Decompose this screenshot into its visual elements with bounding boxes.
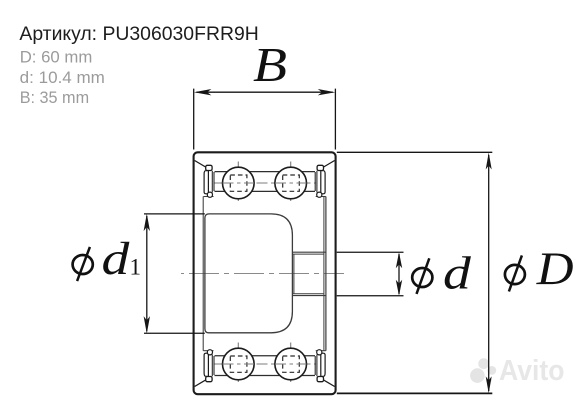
ball top-right — [275, 167, 307, 199]
seal tab — [206, 165, 212, 170]
inner bore d1 rounded profile — [205, 214, 293, 333]
cage dashed box ball top-left — [230, 175, 299, 372]
crosshair h top row — [214, 182, 317, 184]
svg-text:Артикул: PU306030FRR9H: Артикул: PU306030FRR9H — [19, 23, 258, 45]
phi-D extension lines — [337, 151, 493, 153]
dimension phi-d vertical with arrows — [337, 252, 404, 296]
svg-text:B: B — [253, 39, 287, 92]
ball bottom-right — [275, 348, 307, 380]
ball row centerlines crosshairs — [214, 162, 317, 386]
B extension lines — [194, 89, 336, 150]
svg-text:d: d — [102, 233, 130, 285]
ball top-left — [223, 167, 255, 199]
dimension phi-d1 vertical with arrows — [144, 214, 205, 334]
crosshair v ball bottom-left — [237, 343, 239, 386]
hub left face double line — [203, 197, 326, 351]
svg-text:B: 35 mm: B: 35 mm — [20, 88, 89, 107]
race lines top band — [215, 172, 316, 376]
seal bottom ball — [207, 192, 212, 197]
bore d rectangle double lines — [292, 197, 325, 351]
crosshair v ball top-left — [237, 162, 239, 205]
svg-text:d: d — [443, 248, 471, 300]
race lines bottom band — [215, 355, 316, 357]
seal right edge double line — [212, 171, 214, 193]
crosshair v ball top-right — [290, 162, 292, 205]
svg-text:D: 60 mm: D: 60 mm — [20, 48, 93, 67]
svg-text:Avito: Avito — [499, 355, 565, 387]
seal top-right (mirror) — [315, 161, 334, 198]
dimension phi-D vertical with arrows — [337, 152, 493, 393]
svg-text:D: D — [536, 243, 574, 295]
crosshair v ball bottom-right — [290, 343, 292, 386]
phi-d extension lines — [337, 252, 404, 296]
label phi D — [505, 243, 574, 295]
label phi d1 — [73, 233, 141, 285]
flange chamfer diagonal — [195, 161, 206, 168]
redraw crosshair over balls — [223, 183, 307, 364]
centerline horizontal main axis — [181, 273, 344, 275]
dimension B line with arrows — [194, 89, 336, 150]
hub shoulders — [203, 196, 213, 198]
crosshair h bottom row — [214, 363, 317, 365]
label phi d — [412, 248, 471, 300]
seal lip body — [204, 171, 208, 194]
seal+chamfer group top-left — [195, 161, 214, 198]
Avito watermark logo circles — [470, 358, 496, 383]
body outer profile — [194, 152, 336, 394]
svg-text:1: 1 — [130, 255, 142, 280]
ball bottom-left — [223, 348, 255, 380]
phi-d1 extension lines — [144, 214, 205, 333]
seal bottom-left (mirror) — [195, 350, 214, 387]
seal bottom-right (mirror) — [315, 350, 334, 387]
svg-text:d: 10.4 mm: d: 10.4 mm — [20, 68, 105, 87]
